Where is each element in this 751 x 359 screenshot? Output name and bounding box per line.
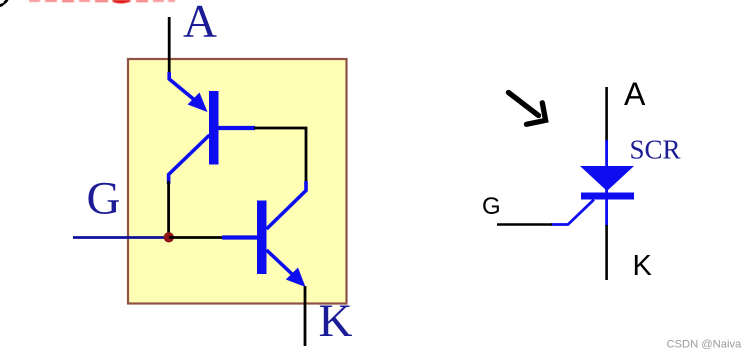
Q2 emitter wire (blue) — [267, 250, 293, 274]
svg-text:A: A — [183, 0, 217, 48]
title text (red, cropped at top edge) — [29, 0, 175, 3]
gate lead (black) — [497, 223, 552, 226]
Q2 emitter arrowhead — [286, 268, 306, 288]
Q1 base stub (blue) — [219, 126, 256, 130]
wire: Q1 base to Q2 collector (black L) — [254, 128, 306, 181]
annotation arrow (black, white halo) — [509, 93, 546, 125]
gate lead (blue) — [551, 200, 594, 225]
Q2 base bar — [257, 201, 267, 275]
anode line (black) — [605, 87, 608, 142]
anode line (blue) — [605, 140, 608, 226]
svg-text:K: K — [319, 295, 353, 347]
wire: cathode lead (black) — [304, 286, 307, 346]
equivalent-circuit box — [128, 59, 347, 304]
cathode line (black) — [605, 225, 608, 280]
wire: Q1 collector to gate node (black) — [167, 181, 170, 237]
Q1 base bar — [209, 91, 219, 165]
transistor Q2 (NPN) — [222, 181, 306, 287]
wire: gate lead (navy) — [73, 236, 169, 239]
partial circle logo inner mark — [0, 2, 4, 7]
svg-text:K: K — [633, 250, 653, 282]
svg-text:G: G — [87, 173, 121, 225]
wire: node to Q2 base (black) — [169, 236, 223, 239]
partial circle logo white gap — [0, 2, 3, 4]
svg-text:CSDN @Naiva: CSDN @Naiva — [667, 339, 743, 351]
svg-text:SCR: SCR — [630, 135, 681, 165]
wire: anode lead (black) — [168, 17, 171, 74]
partial circle logo (cropped at top-left) — [0, 0, 8, 5]
Q1 emitter arrowhead — [188, 93, 208, 113]
svg-text:A: A — [624, 76, 646, 112]
junction node (dark red dot) — [164, 232, 174, 242]
transistor Q1 (PNP) — [169, 72, 255, 184]
Q1 emitter wire (blue) — [169, 72, 194, 100]
Q1 collector wire (blue) — [169, 135, 210, 184]
SCR triangle — [580, 166, 634, 191]
SCR cathode bar — [581, 193, 634, 200]
Q2 collector wire (blue) — [267, 181, 307, 229]
thyristor SCR symbol — [497, 87, 634, 280]
svg-text:G: G — [482, 193, 501, 220]
Q2 base stub (blue) — [222, 235, 257, 239]
